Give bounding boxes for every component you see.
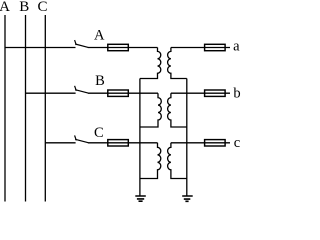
svg-text:B: B <box>95 73 105 89</box>
svg-text:a: a <box>233 39 240 55</box>
svg-text:b: b <box>233 86 240 102</box>
svg-text:B: B <box>19 0 29 15</box>
svg-text:C: C <box>37 0 47 15</box>
svg-text:c: c <box>234 135 240 151</box>
svg-text:A: A <box>94 28 105 44</box>
svg-text:C: C <box>94 125 104 141</box>
svg-text:A: A <box>0 0 10 15</box>
